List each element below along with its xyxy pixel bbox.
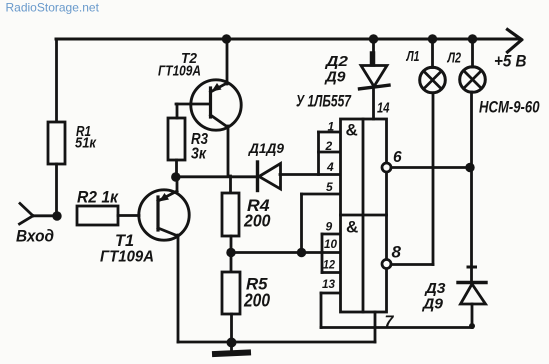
svg-text:ГТ109А: ГТ109А	[158, 63, 201, 80]
svg-text:ГТ109А: ГТ109А	[100, 249, 154, 266]
svg-text:8: 8	[392, 243, 402, 262]
svg-text:6: 6	[393, 149, 402, 166]
svg-text:Л1: Л1	[406, 48, 420, 65]
svg-text:Д2: Д2	[324, 53, 349, 70]
svg-text:200: 200	[243, 291, 270, 311]
svg-text:3к: 3к	[191, 146, 207, 163]
svg-text:14: 14	[377, 100, 390, 117]
svg-text:У 1ЛБ557: У 1ЛБ557	[296, 92, 352, 111]
svg-text:13: 13	[322, 277, 335, 291]
svg-text:12: 12	[323, 258, 335, 272]
svg-text:Д9: Д9	[323, 69, 346, 86]
svg-text:7: 7	[385, 314, 395, 331]
svg-text:2: 2	[325, 139, 333, 153]
svg-text:RadioStorage.net: RadioStorage.net	[6, 1, 100, 15]
svg-text:&: &	[346, 218, 358, 237]
svg-text:4: 4	[326, 160, 334, 174]
svg-text:Д9: Д9	[421, 296, 444, 313]
svg-text:51к: 51к	[75, 136, 97, 152]
svg-text:Д3: Д3	[423, 280, 446, 297]
svg-text:Д1Д9: Д1Д9	[248, 140, 284, 156]
svg-text:Вход: Вход	[16, 228, 54, 246]
svg-text:+5 В: +5 В	[494, 53, 527, 71]
svg-text:T1: T1	[115, 232, 134, 250]
svg-text:9: 9	[326, 220, 333, 234]
svg-text:10: 10	[324, 237, 337, 251]
svg-text:R2 1к: R2 1к	[77, 188, 119, 207]
svg-text:200: 200	[243, 211, 271, 231]
svg-text:5: 5	[326, 180, 333, 194]
svg-text:НСМ-9-60: НСМ-9-60	[479, 98, 540, 117]
svg-text:Л2: Л2	[447, 50, 462, 67]
svg-text:&: &	[346, 121, 358, 140]
svg-text:1: 1	[328, 120, 335, 134]
